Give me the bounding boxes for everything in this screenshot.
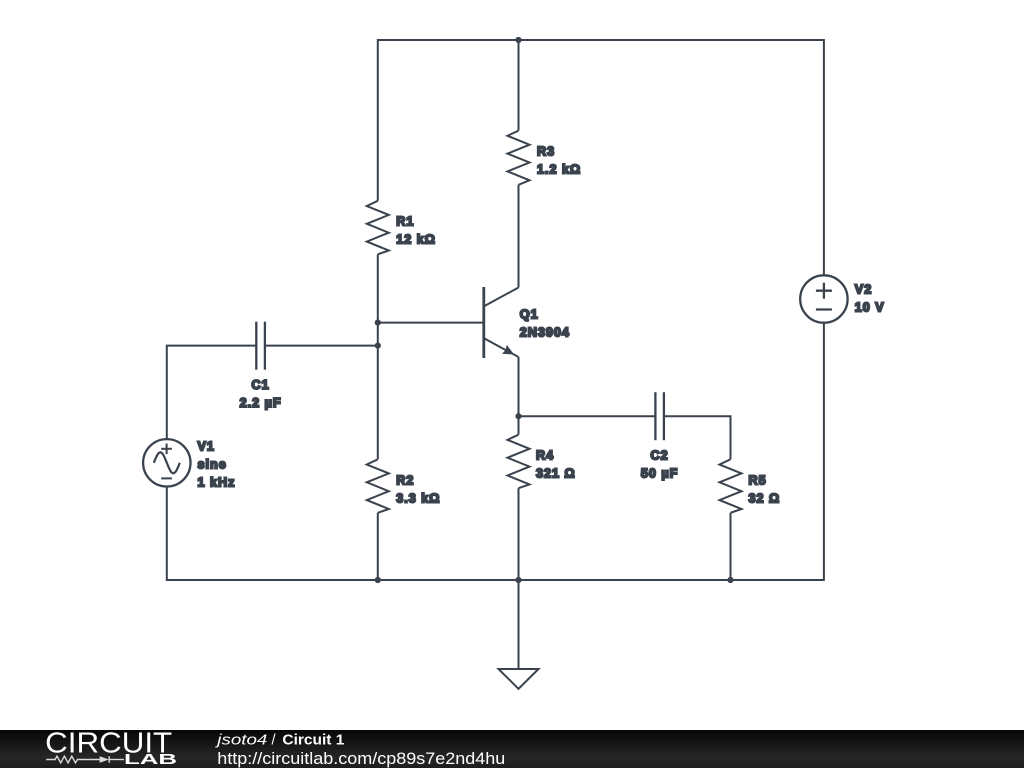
resistor R4 bbox=[508, 435, 576, 489]
wire C1 left bbox=[166, 345, 256, 347]
wire emitter bbox=[518, 357, 520, 416]
wire top rail bbox=[378, 39, 824, 41]
wire V1 top lead bbox=[166, 346, 168, 440]
wire R4 bottom lead bbox=[518, 488, 520, 580]
wire ground stem bbox=[518, 580, 520, 669]
wire R4 top lead bbox=[518, 416, 520, 435]
svg-text:R2: R2 bbox=[396, 473, 414, 487]
svg-text:http://circuitlab.com/cp89s7e2: http://circuitlab.com/cp89s7e2nd4hu bbox=[217, 750, 505, 768]
svg-text:1.2 kΩ: 1.2 kΩ bbox=[537, 163, 581, 177]
svg-text:/: / bbox=[272, 732, 277, 748]
node R5 bottom junction bbox=[727, 577, 733, 583]
wire collector bbox=[518, 185, 520, 288]
footer bar bbox=[0, 730, 1024, 768]
resistor R3 bbox=[508, 131, 582, 185]
node base junction bbox=[375, 320, 381, 326]
node R2 bottom junction bbox=[375, 577, 381, 583]
capacitor C2 bbox=[641, 392, 678, 480]
svg-text:R5: R5 bbox=[749, 473, 767, 487]
wire C1 right bbox=[265, 345, 378, 347]
svg-text:2N3904: 2N3904 bbox=[520, 325, 570, 339]
svg-text:jsoto4: jsoto4 bbox=[215, 732, 268, 748]
wire C2 left bbox=[519, 415, 656, 417]
source V1 bbox=[143, 439, 235, 489]
wire R1-R2 column bbox=[377, 254, 379, 459]
resistor R2 bbox=[367, 459, 441, 513]
svg-text:321 Ω: 321 Ω bbox=[536, 467, 576, 481]
svg-text:Q1: Q1 bbox=[520, 307, 539, 321]
svg-text:R4: R4 bbox=[536, 449, 554, 463]
svg-text:V1: V1 bbox=[198, 439, 215, 453]
logo resistor-diode symbol bbox=[46, 756, 124, 763]
svg-text:V2: V2 bbox=[855, 283, 872, 297]
node top junction bbox=[515, 37, 521, 43]
resistor R1 bbox=[367, 201, 436, 255]
svg-text:32 Ω: 32 Ω bbox=[749, 491, 781, 505]
source V2 bbox=[800, 275, 885, 322]
wire V1 bottom lead bbox=[166, 487, 168, 582]
svg-text:Circuit 1: Circuit 1 bbox=[282, 732, 344, 748]
svg-text:12 kΩ: 12 kΩ bbox=[396, 233, 436, 247]
wire bottom rail bbox=[167, 579, 824, 581]
resistor R5 bbox=[720, 459, 781, 513]
wire V2 top lead bbox=[823, 39, 825, 275]
wire R1 upper lead bbox=[377, 39, 379, 201]
wire R2 bottom lead bbox=[377, 513, 379, 580]
svg-text:LAB: LAB bbox=[124, 751, 177, 768]
wire R3 top lead bbox=[518, 39, 520, 131]
wire base bbox=[378, 322, 483, 324]
node emitter junction bbox=[515, 413, 521, 419]
svg-text:R3: R3 bbox=[537, 145, 555, 159]
ground bbox=[499, 669, 539, 689]
capacitor C1 bbox=[240, 322, 282, 410]
node C1 junction bbox=[375, 343, 381, 349]
svg-text:10 V: 10 V bbox=[855, 301, 885, 315]
svg-text:R1: R1 bbox=[396, 215, 414, 229]
wire V2 bottom lead bbox=[823, 323, 825, 581]
wire R5 bottom lead bbox=[730, 513, 732, 580]
node ground junction bbox=[515, 577, 521, 583]
svg-text:50 µF: 50 µF bbox=[641, 467, 678, 481]
wire C2 right bbox=[664, 416, 731, 459]
svg-text:2.2 µF: 2.2 µF bbox=[240, 396, 282, 410]
svg-text:C2: C2 bbox=[651, 449, 669, 463]
transistor Q1 bbox=[484, 287, 570, 358]
svg-text:3.3 kΩ: 3.3 kΩ bbox=[396, 491, 440, 505]
svg-text:1 kHz: 1 kHz bbox=[198, 475, 236, 489]
svg-text:C1: C1 bbox=[252, 378, 270, 392]
svg-text:sine: sine bbox=[198, 457, 227, 471]
